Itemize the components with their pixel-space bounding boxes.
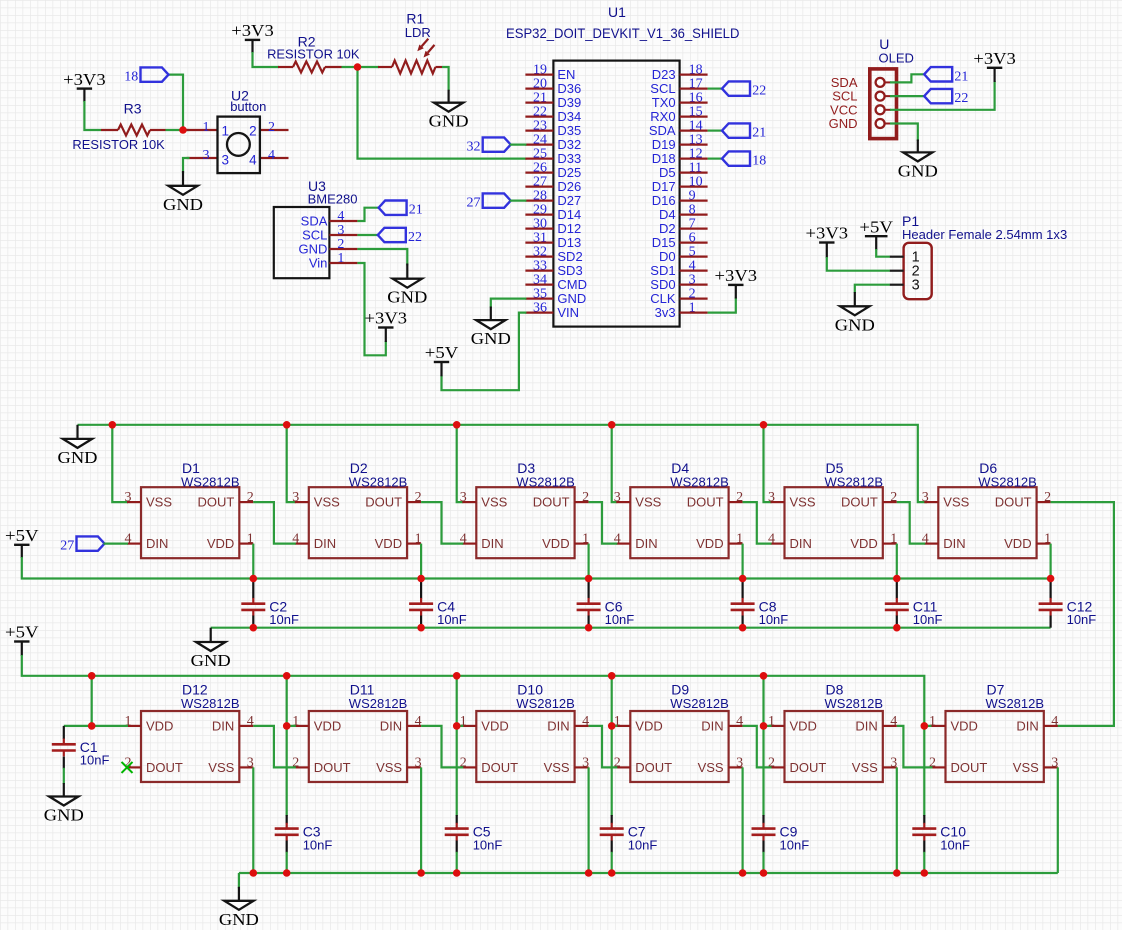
svg-text:D27: D27 <box>557 193 581 208</box>
wire <box>420 767 422 873</box>
wire <box>358 67 527 159</box>
junction <box>283 672 291 680</box>
svg-text:20: 20 <box>533 77 547 92</box>
svg-text:GND: GND <box>471 329 511 348</box>
power +3V3 <box>806 224 849 258</box>
svg-text:+3V3: +3V3 <box>365 309 408 328</box>
svg-text:1: 1 <box>689 301 696 316</box>
svg-text:3: 3 <box>292 490 299 505</box>
svg-text:WS2812B: WS2812B <box>516 696 575 711</box>
junction <box>354 63 362 71</box>
wire <box>253 726 295 768</box>
svg-text:SCL: SCL <box>650 81 675 96</box>
junction <box>453 672 461 680</box>
junction <box>283 421 291 429</box>
wire <box>420 616 422 628</box>
capacitor C11 10nF <box>885 598 943 627</box>
svg-text:button: button <box>230 99 266 114</box>
svg-text:VDD: VDD <box>314 719 341 734</box>
ground <box>163 171 203 214</box>
junction <box>109 421 117 429</box>
LED driver D1 WS2812B <box>125 460 254 558</box>
svg-text:GND: GND <box>829 116 858 131</box>
svg-text:VSS: VSS <box>790 495 816 510</box>
svg-text:TX0: TX0 <box>652 95 676 110</box>
wire <box>78 425 928 502</box>
svg-text:+3V3: +3V3 <box>715 266 758 285</box>
svg-text:4: 4 <box>247 714 254 729</box>
junction <box>893 624 901 632</box>
power +3V3 <box>63 70 106 102</box>
svg-text:35: 35 <box>533 287 547 302</box>
svg-text:D4: D4 <box>659 207 676 222</box>
wire <box>741 579 743 599</box>
wire <box>253 52 280 67</box>
svg-text:DOUT: DOUT <box>197 495 234 510</box>
svg-text:4: 4 <box>736 714 743 729</box>
svg-text:24: 24 <box>533 133 547 148</box>
svg-text:WS2812B: WS2812B <box>825 475 884 490</box>
wire <box>22 557 1051 579</box>
svg-text:GND: GND <box>429 112 469 131</box>
junction <box>921 869 929 877</box>
capacitor C9 10nF <box>752 823 810 853</box>
svg-text:LDR: LDR <box>405 25 431 40</box>
svg-text:4: 4 <box>689 259 696 274</box>
svg-text:DIN: DIN <box>380 719 402 734</box>
wire <box>168 75 184 130</box>
wire <box>897 726 933 768</box>
wire <box>286 852 288 873</box>
capacitor C10 10nF <box>912 823 970 853</box>
net flag 18 <box>124 67 168 84</box>
svg-text:4: 4 <box>1051 714 1058 729</box>
svg-text:DOUT: DOUT <box>790 760 827 775</box>
svg-text:VDD: VDD <box>542 536 569 551</box>
wire <box>211 627 1051 629</box>
wire <box>456 726 458 816</box>
power +5V <box>5 526 39 558</box>
wire <box>84 101 101 130</box>
wire <box>762 815 764 824</box>
svg-text:DIN: DIN <box>212 719 234 734</box>
svg-text:16: 16 <box>689 91 703 106</box>
svg-text:WS2812B: WS2812B <box>670 475 729 490</box>
junction <box>417 869 425 877</box>
wire <box>491 299 527 308</box>
svg-text:4: 4 <box>582 714 589 729</box>
ground <box>191 628 231 670</box>
wire <box>342 66 380 68</box>
svg-text:VSS: VSS <box>1013 760 1039 775</box>
junction <box>608 869 616 877</box>
svg-text:DIN: DIN <box>314 536 336 551</box>
junction <box>250 575 258 583</box>
svg-text:1: 1 <box>222 124 230 139</box>
svg-text:VSS: VSS <box>698 760 724 775</box>
svg-text:OLED: OLED <box>879 50 914 65</box>
wire <box>166 129 190 131</box>
svg-text:12: 12 <box>689 147 703 162</box>
svg-text:4: 4 <box>890 714 897 729</box>
wire <box>897 502 926 543</box>
svg-text:D35: D35 <box>557 123 581 138</box>
wire <box>741 544 743 579</box>
svg-text:VDD: VDD <box>635 719 662 734</box>
svg-text:32: 32 <box>467 140 481 155</box>
net flag 22 <box>378 228 422 245</box>
svg-text:RESISTOR 10K: RESISTOR 10K <box>72 137 165 152</box>
svg-text:2: 2 <box>689 287 696 302</box>
junction <box>608 722 616 730</box>
junction <box>739 575 747 583</box>
svg-text:R3: R3 <box>124 100 142 116</box>
wire <box>456 852 458 873</box>
ground <box>471 307 511 349</box>
wire <box>612 676 618 726</box>
svg-text:10nF: 10nF <box>269 612 299 627</box>
junction <box>417 575 425 583</box>
junction <box>88 722 96 730</box>
junction <box>250 869 258 877</box>
wire <box>420 544 422 579</box>
wire <box>1049 544 1051 579</box>
svg-text:2: 2 <box>268 120 275 135</box>
svg-text:VSS: VSS <box>544 760 570 775</box>
svg-text:9: 9 <box>689 189 696 204</box>
wire <box>112 425 128 502</box>
ground <box>219 887 259 929</box>
svg-text:SD2: SD2 <box>557 249 582 264</box>
svg-text:10nF: 10nF <box>473 838 503 853</box>
svg-text:WS2812B: WS2812B <box>670 696 729 711</box>
svg-text:VSS: VSS <box>943 495 969 510</box>
svg-text:10nF: 10nF <box>605 612 635 627</box>
power +3V3 <box>715 266 758 298</box>
svg-text:SD1: SD1 <box>650 263 675 278</box>
svg-text:VSS: VSS <box>208 760 234 775</box>
wire <box>890 124 918 142</box>
net flag 22 <box>722 81 766 98</box>
wire <box>63 757 65 769</box>
junction <box>417 624 425 632</box>
svg-text:VDD: VDD <box>951 719 978 734</box>
svg-text:D4: D4 <box>671 460 689 476</box>
wire <box>923 815 925 824</box>
wire <box>741 616 743 628</box>
junction <box>739 624 747 632</box>
svg-text:22: 22 <box>752 84 766 99</box>
button U2 <box>187 88 289 174</box>
svg-text:D26: D26 <box>557 179 581 194</box>
svg-text:SCL: SCL <box>302 228 327 243</box>
svg-text:28: 28 <box>533 189 547 204</box>
junction <box>608 421 616 429</box>
svg-text:D19: D19 <box>652 137 676 152</box>
svg-text:17: 17 <box>689 77 703 92</box>
wire <box>762 841 764 853</box>
junction <box>453 421 461 429</box>
wire <box>510 200 527 202</box>
svg-text:31: 31 <box>533 231 547 246</box>
no-connect flag on D12 DOUT <box>122 762 133 773</box>
svg-text:2: 2 <box>249 124 257 139</box>
wire <box>890 81 995 110</box>
svg-text:21: 21 <box>533 91 547 106</box>
svg-text:D32: D32 <box>557 137 581 152</box>
svg-text:WS2812B: WS2812B <box>516 475 575 490</box>
wire <box>286 841 288 853</box>
svg-text:+5V: +5V <box>5 623 39 642</box>
svg-text:DIN: DIN <box>635 536 657 551</box>
wire <box>896 544 898 579</box>
svg-text:13: 13 <box>689 133 703 148</box>
junction <box>760 722 768 730</box>
connector P1 Header Female 2.54mm 1x3 <box>890 213 1068 299</box>
junction <box>453 869 461 877</box>
wire <box>890 74 925 82</box>
svg-text:BME280: BME280 <box>308 191 358 206</box>
svg-text:WS2812B: WS2812B <box>181 696 240 711</box>
svg-text:D13: D13 <box>557 235 581 250</box>
svg-text:VSS: VSS <box>635 495 661 510</box>
ground <box>429 90 469 131</box>
svg-text:D15: D15 <box>652 235 676 250</box>
svg-text:WS2812B: WS2812B <box>978 475 1037 490</box>
junction <box>88 672 96 680</box>
ground <box>835 292 875 334</box>
svg-text:2: 2 <box>890 490 897 505</box>
svg-text:GND: GND <box>58 448 98 467</box>
svg-text:1: 1 <box>929 714 936 729</box>
wire <box>589 726 618 768</box>
svg-text:GND: GND <box>898 161 938 180</box>
svg-text:6: 6 <box>689 231 696 246</box>
LED driver D3 WS2812B <box>460 460 589 558</box>
svg-text:18: 18 <box>689 63 703 78</box>
wire <box>827 257 890 271</box>
svg-text:CMD: CMD <box>557 277 587 292</box>
svg-text:11: 11 <box>689 161 702 176</box>
svg-text:10: 10 <box>689 175 703 190</box>
svg-text:21: 21 <box>409 203 423 218</box>
svg-text:3: 3 <box>125 490 132 505</box>
wire <box>764 676 772 726</box>
wire <box>708 130 723 132</box>
svg-text:2: 2 <box>1044 490 1051 505</box>
wire <box>252 767 254 873</box>
svg-text:+3V3: +3V3 <box>231 21 274 40</box>
wire <box>420 579 422 599</box>
wire <box>923 852 925 873</box>
svg-text:SDA: SDA <box>649 123 676 138</box>
wire <box>287 676 296 726</box>
svg-text:Vin: Vin <box>309 256 328 271</box>
wire <box>611 852 613 873</box>
svg-text:3: 3 <box>460 490 467 505</box>
svg-text:VSS: VSS <box>852 760 878 775</box>
svg-text:DIN: DIN <box>943 536 965 551</box>
svg-text:26: 26 <box>533 161 547 176</box>
svg-text:SDA: SDA <box>301 214 328 229</box>
junction <box>585 869 593 877</box>
svg-text:VSS: VSS <box>481 495 507 510</box>
svg-text:VDD: VDD <box>696 536 723 551</box>
svg-text:DIN: DIN <box>855 719 877 734</box>
svg-text:WS2812B: WS2812B <box>349 696 408 711</box>
svg-text:19: 19 <box>533 63 547 78</box>
svg-text:30: 30 <box>533 217 547 232</box>
wire <box>357 263 385 355</box>
svg-text:GND: GND <box>191 651 231 670</box>
svg-text:10nF: 10nF <box>913 612 943 627</box>
wire <box>1051 502 1114 726</box>
svg-text:DIN: DIN <box>790 536 812 551</box>
svg-text:29: 29 <box>533 203 547 218</box>
junction <box>1047 575 1055 583</box>
wire <box>510 144 527 146</box>
wire <box>923 726 925 816</box>
LED driver D2 WS2812B <box>292 460 421 558</box>
svg-text:DOUT: DOUT <box>481 760 518 775</box>
svg-text:VDD: VDD <box>375 536 402 551</box>
LED driver D8 WS2812B <box>768 682 897 782</box>
svg-text:2: 2 <box>415 490 422 505</box>
sensor U3 BME280 <box>274 178 358 278</box>
svg-text:GND: GND <box>557 291 586 306</box>
svg-text:D5: D5 <box>659 165 676 180</box>
svg-text:3: 3 <box>337 223 344 238</box>
wire <box>357 208 379 221</box>
svg-text:RESISTOR 10K: RESISTOR 10K <box>267 46 360 61</box>
wire <box>104 542 129 544</box>
svg-text:VSS: VSS <box>314 495 340 510</box>
svg-text:2: 2 <box>736 490 743 505</box>
svg-text:27: 27 <box>533 175 547 190</box>
svg-text:U1: U1 <box>608 4 626 20</box>
svg-text:3: 3 <box>922 490 929 505</box>
svg-text:10nF: 10nF <box>628 838 658 853</box>
junction <box>893 575 901 583</box>
capacitor C7 10nF <box>600 823 658 853</box>
LED driver D12 WS2812B <box>125 682 254 782</box>
net flag 22 <box>924 89 968 106</box>
svg-text:D33: D33 <box>557 151 581 166</box>
svg-text:2: 2 <box>337 237 344 252</box>
svg-text:GND: GND <box>163 195 203 214</box>
svg-text:34: 34 <box>533 273 547 288</box>
svg-text:VDD: VDD <box>146 719 173 734</box>
wire <box>442 313 527 391</box>
svg-text:D36: D36 <box>557 81 581 96</box>
svg-text:32: 32 <box>533 245 547 260</box>
svg-text:8: 8 <box>689 203 696 218</box>
svg-text:10nF: 10nF <box>780 838 810 853</box>
svg-text:SD3: SD3 <box>557 263 582 278</box>
svg-text:4: 4 <box>415 714 422 729</box>
junction <box>283 869 291 877</box>
LED driver D6 WS2812B <box>922 460 1051 558</box>
svg-text:GND: GND <box>44 806 84 825</box>
svg-text:DOUT: DOUT <box>533 495 570 510</box>
capacitor C3 10nF <box>275 823 333 853</box>
svg-text:3v3: 3v3 <box>655 305 676 320</box>
svg-text:2: 2 <box>582 490 589 505</box>
wire <box>587 616 589 628</box>
svg-text:27: 27 <box>60 539 74 554</box>
wire <box>63 726 65 739</box>
wire <box>762 726 764 816</box>
wire <box>743 726 772 768</box>
junction <box>250 624 258 632</box>
LED driver D4 WS2812B <box>614 460 743 558</box>
svg-text:22: 22 <box>533 105 547 120</box>
svg-text:D2: D2 <box>659 221 676 236</box>
power +3V3 <box>231 21 274 53</box>
capacitor C12 10nF <box>1039 598 1097 627</box>
svg-text:EN: EN <box>557 67 575 82</box>
capacitor C5 10nF <box>445 823 503 853</box>
svg-text:10nF: 10nF <box>759 612 789 627</box>
svg-text:D25: D25 <box>557 165 581 180</box>
svg-text:GND: GND <box>299 242 328 257</box>
svg-text:+5V: +5V <box>425 343 459 362</box>
net flag 21 <box>924 67 968 84</box>
svg-text:2: 2 <box>247 490 254 505</box>
net flag 21 <box>722 123 766 140</box>
svg-text:DOUT: DOUT <box>995 495 1032 510</box>
svg-text:33: 33 <box>533 259 547 274</box>
wire <box>896 767 898 873</box>
svg-text:3: 3 <box>614 490 621 505</box>
junction <box>760 672 768 680</box>
wire <box>611 815 613 824</box>
wire <box>64 725 92 727</box>
svg-text:23: 23 <box>533 119 547 134</box>
svg-text:22: 22 <box>954 91 968 106</box>
net flag 21 <box>379 201 423 218</box>
svg-text:4: 4 <box>249 152 257 167</box>
wire <box>252 544 254 579</box>
capacitor C1 10nF <box>52 739 110 768</box>
resistor R3 <box>72 100 165 151</box>
junction <box>739 869 747 877</box>
svg-text:DIN: DIN <box>146 536 168 551</box>
wire <box>457 425 464 502</box>
ground <box>44 783 84 825</box>
svg-text:GND: GND <box>219 910 259 929</box>
svg-text:DOUT: DOUT <box>841 495 878 510</box>
svg-text:VDD: VDD <box>850 536 877 551</box>
wire <box>708 298 736 313</box>
svg-text:D6: D6 <box>979 460 997 476</box>
wire <box>762 852 764 873</box>
svg-text:18: 18 <box>124 70 138 85</box>
wire <box>183 158 190 173</box>
ground <box>898 140 938 181</box>
wire <box>91 676 93 726</box>
svg-text:18: 18 <box>752 154 766 169</box>
power +5V <box>425 343 459 376</box>
svg-text:+3V3: +3V3 <box>973 49 1016 68</box>
wire <box>1057 767 1059 873</box>
svg-text:3: 3 <box>768 490 775 505</box>
svg-text:10nF: 10nF <box>940 838 970 853</box>
wire <box>611 726 613 816</box>
svg-text:D17: D17 <box>652 179 676 194</box>
svg-text:CLK: CLK <box>650 291 676 306</box>
svg-text:DOUT: DOUT <box>951 760 988 775</box>
